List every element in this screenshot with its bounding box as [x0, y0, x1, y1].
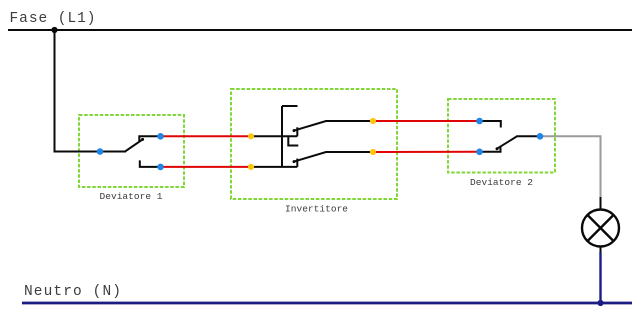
lower contact Deviatore 1 [140, 160, 161, 167]
svg-text:Fase (L1): Fase (L1) [10, 11, 96, 27]
svg-text:Deviatore 2: Deviatore 2 [470, 177, 533, 188]
crossover top bar Invertitore [282, 105, 298, 107]
upper contact Deviatore 2 [480, 121, 501, 128]
upper contact Deviatore 1 [139, 136, 161, 141]
wire lower input Invertitore [251, 166, 297, 168]
node lower input terminal Invertitore [248, 164, 254, 170]
upper switch arm Invertitore [294, 121, 373, 131]
wire navy lamp to Neutro [599, 252, 601, 303]
lower arm tip Invertitore [293, 160, 296, 163]
Deviatore 2 box [448, 99, 555, 173]
wire upper input Invertitore [251, 135, 297, 137]
node upper terminal Deviatore 1 [157, 133, 164, 140]
wire red upper Invertitore to Deviatore 2 [373, 120, 480, 122]
lower contact Deviatore 2 [480, 146, 501, 152]
node common terminal Deviatore 2 [537, 133, 544, 140]
node junction on Fase bus [51, 27, 57, 33]
node upper output terminal Invertitore [370, 118, 376, 124]
node upper input terminal Invertitore [248, 133, 254, 139]
upper arm tip Invertitore [293, 129, 296, 132]
lower switch arm Invertitore [294, 152, 373, 162]
svg-text:Deviatore 1: Deviatore 1 [100, 191, 163, 202]
node junction on Neutro bus [597, 300, 603, 306]
switch arm Deviatore 1 [125, 139, 143, 151]
wire black lamp top lead [600, 197, 602, 210]
wire Fase (L1) bus [8, 29, 632, 31]
wire red upper Deviatore 1 to Invertitore [161, 135, 252, 137]
wire red lower Deviatore 1 to Invertitore [161, 166, 252, 168]
svg-text:Invertitore: Invertitore [285, 204, 348, 215]
node lower input terminal Deviatore 2 [476, 149, 483, 156]
node upper input terminal Deviatore 2 [476, 118, 483, 125]
lamp L1 circle [582, 210, 619, 247]
svg-text:Neutro (N): Neutro (N) [24, 284, 121, 300]
wire gray Deviatore 2 to lamp [540, 136, 601, 197]
wire Neutro (N) bus [22, 302, 632, 305]
crossover step from upper input down Invertitore [288, 136, 298, 145]
crossover vertical bus Invertitore [281, 106, 283, 167]
Deviatore 1 box [79, 115, 184, 187]
node lower terminal Deviatore 1 [157, 164, 164, 171]
switch arm tip Deviatore 2 [496, 147, 499, 150]
node common terminal Deviatore 1 [97, 148, 104, 155]
upper straight contact stub Invertitore [296, 127, 298, 136]
wire red lower Invertitore to Deviatore 2 [373, 151, 480, 153]
wire from Fase junction down and right to Deviatore 1 common [55, 30, 127, 152]
node lower output terminal Invertitore [370, 149, 376, 155]
switch arm tip Deviatore 1 [141, 138, 144, 141]
Invertitore box [231, 89, 397, 199]
lower straight contact stub Invertitore [296, 159, 298, 167]
wire black lamp bottom lead [600, 247, 602, 253]
switch arm Deviatore 2 [497, 136, 540, 148]
lamp L1 cross [587, 215, 613, 241]
